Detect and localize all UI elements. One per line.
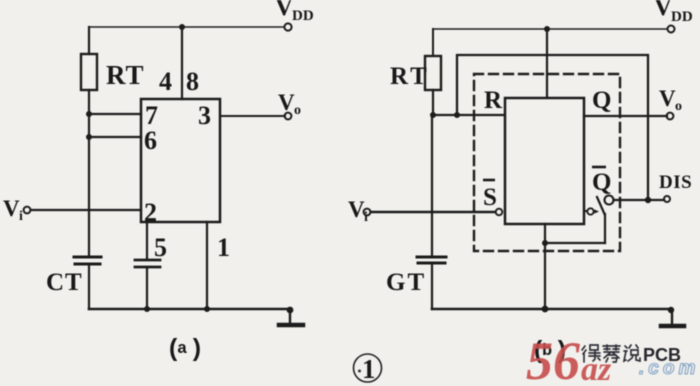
svg-text:a: a [177, 340, 187, 359]
svg-text:56: 56 [526, 331, 580, 386]
svg-text:i: i [364, 210, 368, 225]
svg-text:RT: RT [106, 60, 145, 90]
svg-text:3: 3 [198, 101, 211, 130]
svg-text:6: 6 [144, 126, 157, 155]
svg-text:): ) [189, 335, 204, 364]
svg-text:R: R [484, 87, 503, 114]
svg-text:DD: DD [671, 9, 693, 25]
svg-text:V: V [654, 0, 672, 21]
svg-text:Q: Q [592, 87, 611, 114]
svg-text:CT: CT [46, 269, 83, 296]
svg-text:DD: DD [292, 8, 314, 24]
svg-text:V: V [275, 0, 293, 21]
svg-text:RT: RT [390, 63, 430, 90]
svg-text:o: o [294, 103, 301, 118]
svg-text:8: 8 [186, 67, 199, 96]
svg-text:V: V [348, 197, 365, 222]
svg-text:4: 4 [159, 67, 172, 96]
svg-text:2: 2 [144, 198, 157, 227]
svg-text:i: i [19, 209, 23, 224]
svg-text:GT: GT [386, 269, 426, 296]
svg-text:V: V [3, 196, 20, 221]
svg-text:V: V [278, 90, 295, 115]
svg-text:1: 1 [217, 233, 230, 262]
svg-text:o: o [675, 99, 682, 114]
svg-text:Q: Q [592, 169, 611, 196]
svg-text:V: V [659, 86, 676, 111]
svg-text:S: S [483, 184, 497, 211]
svg-text:.com: .com [639, 358, 699, 379]
svg-text:DIS: DIS [659, 172, 692, 193]
svg-text:1: 1 [362, 354, 376, 384]
svg-text:az: az [581, 351, 612, 386]
svg-text:5: 5 [154, 233, 167, 262]
